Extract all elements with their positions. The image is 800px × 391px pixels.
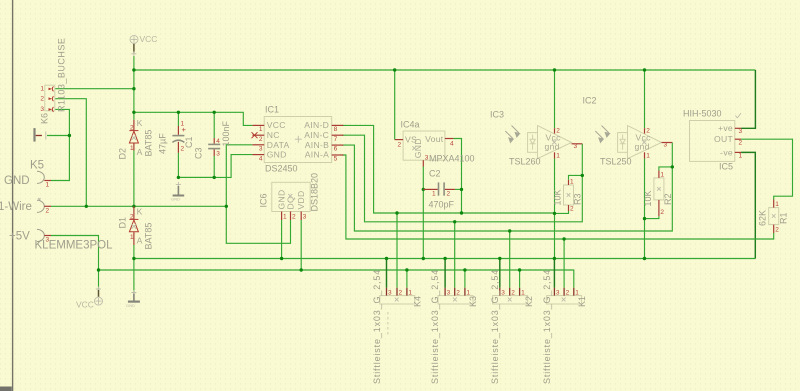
svg-text:+5V: +5V <box>9 231 30 243</box>
svg-text:2: 2 <box>566 290 570 297</box>
svg-text:8: 8 <box>334 126 338 133</box>
svg-text:K3: K3 <box>468 296 478 307</box>
svg-text:GND: GND <box>171 197 180 202</box>
svg-text:1: 1 <box>40 86 44 93</box>
svg-text:47µF: 47µF <box>158 133 168 154</box>
svg-text:1: 1 <box>432 191 436 198</box>
svg-text:2: 2 <box>456 290 460 297</box>
svg-text:K: K <box>137 118 143 128</box>
junction (178.4,177.4) <box>177 176 180 179</box>
svg-text:1: 1 <box>775 201 779 208</box>
resistor R3 10K <box>553 179 583 213</box>
svg-text:4: 4 <box>216 138 220 145</box>
junction (133.9,258.5) <box>132 257 135 260</box>
wire AIN-B net IC1 pin6 to IC2 out <box>342 143 672 232</box>
svg-text:R1: R1 <box>779 212 789 224</box>
wire K1 pin2 signal drop <box>563 239 565 288</box>
svg-text:DS2450: DS2450 <box>265 164 298 174</box>
wire GND rail1 <box>134 258 755 260</box>
svg-text:KLEMME3POL: KLEMME3POL <box>35 240 114 252</box>
junction (133.9,70) <box>132 68 135 71</box>
svg-text:R2: R2 <box>663 193 673 205</box>
wire VCC rail right end down to HIH-5030 +ve <box>741 70 755 128</box>
wire AIN-D net IC1 pin8 to R3 area <box>342 125 555 213</box>
junction (397,213) <box>395 211 398 214</box>
svg-text:NC: NC <box>267 130 280 140</box>
svg-text:1: 1 <box>130 234 134 241</box>
svg-text:IC4a: IC4a <box>401 120 420 130</box>
svg-text:VCC: VCC <box>140 34 158 44</box>
wire D1 anode down through rail1 to GND symbol <box>133 245 135 292</box>
svg-text:AIN-C: AIN-C <box>304 130 329 140</box>
junction (214.2,177.4) <box>213 176 216 179</box>
svg-text:3: 3 <box>664 142 668 149</box>
IC1 DS2450 <box>252 105 344 174</box>
svg-text:GND: GND <box>126 303 135 308</box>
svg-text:-ve: -ve <box>720 147 733 157</box>
svg-text:DS18B20: DS18B20 <box>310 173 320 212</box>
svg-text:2: 2 <box>292 214 296 221</box>
svg-text:gnd: gnd <box>545 142 560 152</box>
svg-text:2: 2 <box>570 206 574 213</box>
junction (564.1,239) <box>562 237 565 240</box>
capacitor C3 100nF <box>194 120 232 159</box>
junction (98.5,270) <box>97 268 100 271</box>
junction (461.5,213) <box>460 211 463 214</box>
junction (214.2,112.3) <box>213 111 216 114</box>
wire C3 top stub drop <box>213 112 215 138</box>
diode D1 BAT85 <box>118 206 154 249</box>
svg-text:C1: C1 <box>184 136 194 148</box>
svg-text:IC1: IC1 <box>265 105 279 115</box>
svg-text:1: 1 <box>283 214 287 221</box>
connector K2 Stiftleiste 1x03 <box>490 269 534 384</box>
junction (133.9,88.7) <box>132 87 135 90</box>
svg-text:AIN-D: AIN-D <box>304 120 329 130</box>
svg-text:Stiftleiste_1x03_G_2,54: Stiftleiste_1x03_G_2,54 <box>542 269 552 384</box>
svg-text:A: A <box>137 236 143 246</box>
IC2 TSL250 light sensor <box>583 96 673 167</box>
svg-text:1: 1 <box>570 179 574 186</box>
svg-text:1: 1 <box>181 121 185 128</box>
junction (644.5,258.5) <box>643 257 646 260</box>
svg-text:2: 2 <box>259 136 263 143</box>
junction (423.3,189.4) <box>422 188 425 191</box>
svg-text:1: 1 <box>130 145 134 152</box>
svg-text:VCC: VCC <box>76 300 94 310</box>
svg-text:6: 6 <box>334 146 338 153</box>
ground symbol below D1 <box>126 290 140 308</box>
svg-text:1: 1 <box>408 290 412 297</box>
IC4a MPXA4100 pressure sensor <box>395 120 475 167</box>
wire IC1 DATA to 1-Wire vertical and IC6 DQ <box>226 145 290 244</box>
resistor R2 10K <box>643 171 673 217</box>
svg-text:GND: GND <box>267 150 287 160</box>
wire VCC rail2 lower <box>99 270 574 288</box>
svg-text:BAT85: BAT85 <box>144 223 154 250</box>
wire IC3 Vcc pin up to VCC rail <box>554 70 556 128</box>
junction (644.5,70) <box>643 68 646 71</box>
diode D2 BAT85 <box>118 118 154 160</box>
svg-text:R1103_BUCHSE: R1103_BUCHSE <box>57 38 67 112</box>
junction (226.3,206.3) <box>225 205 228 208</box>
svg-text:3: 3 <box>259 146 263 153</box>
supply VCC top <box>130 34 157 56</box>
wire +5V from K5 pin3 to VCC supply drop <box>51 236 99 291</box>
connector K5 KLEMME3POL <box>0 160 113 252</box>
svg-text:1: 1 <box>46 182 50 189</box>
junction (509.7,231) <box>508 229 511 232</box>
svg-text:10K: 10K <box>643 190 653 206</box>
ground symbol below C1 <box>171 182 184 202</box>
svg-text:2: 2 <box>447 191 451 198</box>
wire K4 pin2 signal drop <box>396 213 398 288</box>
junction (178.4,112.3) <box>177 111 180 114</box>
svg-text:D2: D2 <box>118 148 128 160</box>
svg-text:Stiftleiste_1x03_G_2,54: Stiftleiste_1x03_G_2,54 <box>372 269 382 384</box>
svg-text:A: A <box>137 147 143 157</box>
svg-text:2: 2 <box>398 142 402 149</box>
junction (69.4,135.5) <box>68 134 71 137</box>
junction (386.5,258.5) <box>385 257 388 260</box>
wire VCC top rail <box>134 69 756 71</box>
connector K3 Stiftleiste 1x03 <box>430 269 478 384</box>
svg-text:10K: 10K <box>553 189 563 205</box>
wire 1-Wire net from K5 pin2 <box>51 205 226 207</box>
svg-text:HIH-5030: HIH-5030 <box>683 109 722 119</box>
svg-text:2: 2 <box>775 227 779 234</box>
wire IC2 Vcc pin up to VCC rail <box>644 70 646 128</box>
svg-text:1: 1 <box>646 153 650 160</box>
svg-text:VCC: VCC <box>267 120 286 130</box>
svg-text:2: 2 <box>40 95 44 102</box>
svg-text:R3: R3 <box>573 193 583 205</box>
frame border left line <box>12 0 14 391</box>
wire K4 pin1 drop from rail2 <box>406 270 408 288</box>
supply VCC bottom <box>76 287 103 310</box>
wire IC4a VS pin up to VCC rail <box>394 70 396 140</box>
svg-text:1: 1 <box>556 153 560 160</box>
junction (644.5,218.6) <box>643 217 646 220</box>
svg-text:2: 2 <box>130 125 134 132</box>
wire K6 pin3 down to K5 GND pin <box>51 109 69 180</box>
svg-text:D1: D1 <box>118 217 128 229</box>
junction (461.5,189.4) <box>460 188 463 191</box>
svg-text:BAT85: BAT85 <box>144 130 154 157</box>
wire K6 pin2 down to 1-Wire net <box>55 99 87 207</box>
svg-text:3: 3 <box>447 290 451 297</box>
junction (454.7,221.8) <box>453 220 456 223</box>
svg-text:1: 1 <box>521 290 525 297</box>
svg-text:470pF: 470pF <box>429 200 455 210</box>
wire C1 top stub drop <box>177 112 179 126</box>
junction (406.9,270) <box>405 268 408 271</box>
junction (394.7,70) <box>393 68 396 71</box>
svg-text:K: K <box>137 207 143 217</box>
wire IC6 GND pin down to rail1 <box>281 220 283 259</box>
wire AIN-C net IC1 pin7 to IC3 out <box>342 135 582 222</box>
svg-text:MPXA4100: MPXA4100 <box>429 154 475 164</box>
capacitor C1 47uF polarized <box>158 121 195 155</box>
junction (464.9,270) <box>463 268 466 271</box>
svg-text:7: 7 <box>334 136 338 143</box>
svg-text:DATA: DATA <box>267 140 290 150</box>
junction (301.2,270) <box>300 268 303 271</box>
wire D2 anode down to 1-Wire net <box>133 151 135 207</box>
junction (499.8,258.5) <box>498 257 501 260</box>
svg-text:K6: K6 <box>40 113 50 124</box>
junction (554.5,213.4) <box>553 212 556 215</box>
wire K2 pin2 signal drop <box>509 231 511 288</box>
wire IC3 gnd down to rail1 <box>554 159 556 259</box>
svg-text:4: 4 <box>450 141 454 148</box>
wire K4 pin3 drop from rail1 <box>386 259 388 288</box>
IC6 DS18B20 <box>259 173 320 221</box>
wire K1 pin3 drop from rail1 <box>553 259 555 288</box>
junction (554.4,258.5) <box>553 257 556 260</box>
wire IC4a Vout down to AIN-D <box>453 139 461 214</box>
svg-text:K1: K1 <box>577 296 587 307</box>
junction (445.1,258.5) <box>443 257 446 260</box>
svg-text:IC6: IC6 <box>259 193 269 207</box>
svg-text:Stiftleiste_1x03_G_2,54: Stiftleiste_1x03_G_2,54 <box>430 269 440 384</box>
junction (86.3,206.3) <box>85 205 88 208</box>
svg-text:1: 1 <box>259 126 263 133</box>
footprint dash mark below K4 <box>387 312 389 336</box>
svg-text:C2: C2 <box>429 169 441 179</box>
IC5 HIH-5030 humidity sensor <box>683 109 743 172</box>
wire R2 pin2 jog to IC2 gnd vertical <box>645 216 659 218</box>
svg-text:2: 2 <box>739 140 743 147</box>
junction (281.6,258.5) <box>280 257 283 260</box>
wire K3 pin1 drop from rail2 <box>464 270 466 288</box>
wire GND bar symbol to K6 net vertical <box>47 135 69 137</box>
svg-text:DQ: DQ <box>285 196 295 210</box>
junction (672.3,166.9) <box>671 165 674 168</box>
connector K4 Stiftleiste 1x03 <box>372 269 423 384</box>
svg-text:K5: K5 <box>30 160 44 172</box>
wire AIN-A net IC1 pin5 to R1 pin2 <box>342 155 774 239</box>
svg-text:+ve: +ve <box>718 123 733 133</box>
svg-text:3: 3 <box>216 151 220 158</box>
svg-text:62K: 62K <box>758 210 768 226</box>
svg-text:K2: K2 <box>524 296 534 307</box>
svg-text:TSL250: TSL250 <box>600 157 632 167</box>
IC3 TSL260 light sensor <box>490 110 582 167</box>
wire IC2 gnd down to rail1 <box>644 159 646 259</box>
svg-text:1-Wire: 1-Wire <box>0 201 32 213</box>
junction (423.3,258.5) <box>422 257 425 260</box>
svg-text:3: 3 <box>388 290 392 297</box>
svg-text:2: 2 <box>399 290 403 297</box>
junction (582.3,175.4) <box>581 174 584 177</box>
svg-text:100nF: 100nF <box>221 120 231 146</box>
wire HIH-5030 -ve down to rail1 end <box>741 152 755 258</box>
wire K2 pin3 drop from rail1 <box>499 259 501 288</box>
svg-text:2: 2 <box>130 214 134 221</box>
svg-text:2: 2 <box>46 208 50 215</box>
svg-text:3: 3 <box>574 143 578 150</box>
ground bar symbol left of K6 net <box>33 128 45 142</box>
junction (554.5,70) <box>553 68 556 71</box>
svg-text:3: 3 <box>40 106 44 113</box>
svg-text:3: 3 <box>501 290 505 297</box>
svg-text:1: 1 <box>739 153 743 160</box>
svg-text:3: 3 <box>739 128 743 135</box>
wire C1 bottom to GND node <box>178 153 214 178</box>
svg-text:1: 1 <box>575 290 579 297</box>
svg-text:5: 5 <box>334 156 338 163</box>
wire K3 pin2 signal drop <box>454 222 456 288</box>
svg-text:3: 3 <box>303 214 307 221</box>
connector K1 Stiftleiste 1x03 <box>542 269 587 384</box>
junction (519.6,270) <box>518 268 521 271</box>
svg-text:IC2: IC2 <box>583 96 597 106</box>
junction (133.9,206.3) <box>132 205 135 208</box>
svg-text:3: 3 <box>556 290 560 297</box>
wire R3 pin2 jog to IC3 gnd vertical <box>555 211 569 213</box>
svg-text:AIN-A: AIN-A <box>305 150 329 160</box>
wire K6 pin1 to VCC vertical <box>55 88 134 90</box>
connector K6 R1103_BUCHSE <box>40 38 67 124</box>
wire C2 right pin to Vout vertical <box>455 188 462 190</box>
wire K2 pin1 drop from rail2 <box>519 270 521 288</box>
svg-text:IC5: IC5 <box>719 162 733 172</box>
svg-text:1: 1 <box>466 290 470 297</box>
svg-text:OUT: OUT <box>714 134 733 144</box>
junction (133.9,112.3) <box>132 111 135 114</box>
wire K3 pin3 drop from rail1 <box>444 259 446 288</box>
capacitor C2 470pF <box>423 169 455 210</box>
svg-text:2: 2 <box>660 209 664 216</box>
wire R3 pin1 jog to IC3 out vertical <box>569 175 583 179</box>
frame corner block bottom-left <box>0 387 12 391</box>
svg-text:TSL260: TSL260 <box>509 157 541 167</box>
svg-text:Vout: Vout <box>425 134 444 144</box>
svg-text:2: 2 <box>511 290 515 297</box>
svg-text:gnd: gnd <box>635 142 650 152</box>
svg-text:AIN-B: AIN-B <box>305 140 329 150</box>
wire HIH-5030 OUT to R1 pin1 <box>741 139 792 199</box>
svg-text:VDD: VDD <box>296 190 306 209</box>
svg-text:4: 4 <box>259 155 263 162</box>
wire IC4a gnd down to rail1 <box>422 167 424 259</box>
svg-text:IC3: IC3 <box>490 110 504 120</box>
svg-text:3: 3 <box>425 155 429 162</box>
svg-text:GND: GND <box>4 175 30 187</box>
svg-text:K4: K4 <box>413 296 423 307</box>
wire R2 pin1 jog to IC2 out vertical <box>659 167 672 171</box>
svg-text:Stiftleiste_1x03_G_2,54: Stiftleiste_1x03_G_2,54 <box>490 269 500 384</box>
svg-text:1: 1 <box>660 172 664 179</box>
wire IC1 GND pin to GND node <box>178 155 252 178</box>
wire VCC vertical from supply symbol through D2 top <box>133 56 135 120</box>
svg-text:C3: C3 <box>194 147 204 159</box>
wire IC6 VDD down to rail2 <box>300 220 302 270</box>
wire VCC to C1 C3 IC1 pin1 <box>134 112 253 125</box>
resistor R1 62K <box>758 200 789 234</box>
